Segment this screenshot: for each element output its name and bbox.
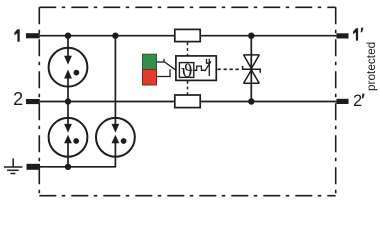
junction node line1/GDT1 [65, 33, 71, 39]
wire: TVS branch vertical x=251.3 [250, 36, 252, 102]
terminal 1' prime [361, 28, 364, 33]
svg-text:2: 2 [353, 92, 362, 110]
ground symbol [4, 158, 23, 173]
dashed link thermal device to suppressor [218, 68, 242, 70]
wire: line 2 horizontal (terminal 2 to 2') [40, 101, 337, 103]
temperature sensor inner box [179, 63, 193, 78]
terminal 1 stub [26, 33, 40, 38]
wire: left branch vertical x=68 (line1-GDT1-line2-GDT2-ground) [67, 36, 69, 167]
junction node line1/GDT3 branch [112, 33, 118, 39]
junction node ground/GDT2 [65, 164, 71, 170]
terminal 1 label [14, 29, 19, 42]
wire: ground bus horizontal [40, 166, 116, 168]
junction node line1/TVS [248, 33, 254, 39]
svg-text:protected: protected [364, 42, 378, 91]
thermal switch contact glyph [205, 59, 211, 76]
theta symbol [181, 64, 192, 78]
terminal 1' label [353, 28, 358, 40]
indicator switch linkage [157, 59, 177, 77]
status indicator (green/red flag) [143, 54, 157, 85]
enclosure dash-dot border [39, 7, 335, 195]
junction node line2/TVS [248, 98, 254, 104]
ground terminal stub [27, 164, 41, 170]
resistor R1 (series impedance, line 1) [175, 29, 200, 41]
gas discharge tube GDT3 (bottom right) [96, 118, 135, 157]
wire: line 1 horizontal (terminal 1 to 1') [40, 35, 337, 37]
terminal 2' prime [362, 94, 365, 99]
resistor R2 (series impedance, line 2) [175, 95, 200, 108]
thermal disconnect box U1 [176, 56, 216, 81]
suppressor diode (bidirectional TVS) [243, 55, 261, 83]
gas discharge tube GDT2 (bottom left) [49, 118, 88, 157]
dashed link resistors to thermal device [187, 43, 189, 95]
gas discharge tube GDT1 (top left) [49, 48, 88, 87]
wire: right branch vertical x=115.4 (line1 to GDT3 to ground, crosses line2) [114, 36, 116, 167]
terminal 2 stub [26, 99, 40, 104]
terminal 2' stub [337, 99, 349, 104]
terminal 1' stub [337, 33, 349, 38]
pulse/step line inside thermal box [194, 66, 205, 70]
svg-text:2: 2 [13, 89, 23, 109]
junction node line2/GDT1-GDT2 [65, 98, 71, 104]
